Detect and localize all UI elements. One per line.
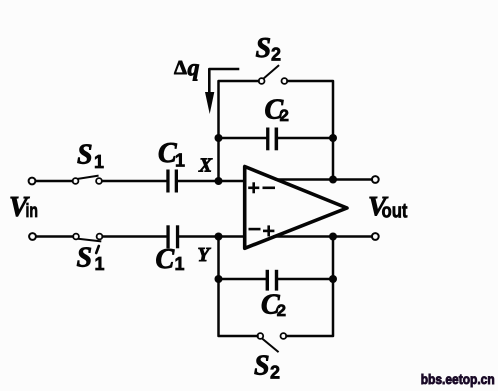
label delta q (charge annotation) [174, 56, 200, 82]
node Vout+ output terminal (open circle) [372, 176, 379, 183]
svg-text:S: S [256, 33, 272, 64]
wire top input: C1 to op-amp non-inverting input via node X [178, 180, 244, 183]
switch S1' (two contact circles + lever) [73, 234, 102, 242]
svg-text:bbs.eetop.cn: bbs.eetop.cn [421, 372, 495, 387]
svg-text:1: 1 [175, 151, 185, 171]
wire bottom C2 row right [278, 278, 333, 281]
svg-text:S: S [77, 242, 93, 273]
svg-text:q: q [188, 56, 200, 82]
wire top C2 row right [278, 137, 333, 140]
node Y junction dot [215, 233, 223, 241]
svg-text:1: 1 [175, 254, 185, 274]
wire right rail upper: S2 row down to top output node [288, 81, 334, 180]
node Vin+ input terminal (top-left open circle) [29, 178, 36, 185]
svg-text:out: out [382, 201, 408, 223]
label S1' (bottom input switch) [77, 242, 105, 274]
switch S2 (top feedback, contact circles + lever) [259, 66, 288, 84]
junction dot: top C2 left on rail [215, 134, 223, 142]
wire bottom input: switch S1' to capacitor C1 [103, 235, 167, 238]
label C1 (bottom input capacitor value) [156, 244, 185, 275]
junction dot: bottom output on right rail [329, 233, 337, 241]
svg-text:Y: Y [198, 245, 212, 266]
label S2 (top feedback switch) [256, 33, 282, 65]
wire left rail upper: node X up to switch S2 row [219, 81, 259, 181]
svg-text:1: 1 [94, 152, 104, 172]
op-amp pin + (top non-inverting input mark) [250, 184, 259, 192]
svg-text:C: C [156, 244, 175, 275]
wire bottom C2 row left [219, 278, 267, 281]
wire delta-q annotation arrow (charge flow into node X) [209, 69, 238, 95]
capacitor C1 (top input, plates) [166, 170, 178, 193]
junction dot: bottom C2 right on rail [329, 275, 337, 283]
wire right rail lower: bottom output node down to bottom S2 row [287, 237, 334, 337]
op-amp U1 (fully differential amplifier triangle) [245, 167, 347, 249]
switch S1 (two contact circles + lever) [73, 176, 102, 184]
wire bottom output: op-amp edge to Vout- terminal [274, 235, 372, 238]
node Vout- output terminal (open circle) [372, 233, 379, 240]
junction dot: bottom C2 left on rail [215, 275, 223, 283]
svg-text:Δ: Δ [174, 57, 187, 79]
junction dot: top C2 right on rail [329, 134, 337, 142]
node Vin- input terminal (bottom-left open circle) [29, 233, 36, 240]
label Vin [9, 192, 38, 223]
wire top output: op-amp edge to Vout+ terminal [276, 178, 372, 181]
wire bottom input: terminal to switch S1' [36, 235, 73, 238]
capacitor C1 (bottom input, plates) [166, 225, 179, 248]
label C2 (bottom feedback capacitor value) [261, 290, 286, 321]
wire top C2 row left [219, 137, 267, 140]
svg-text:in: in [26, 201, 39, 222]
svg-text:1: 1 [95, 254, 105, 274]
wire top input: switch S1 to capacitor C1 [102, 180, 166, 183]
svg-text:2: 2 [277, 301, 286, 320]
svg-text:X: X [198, 155, 213, 176]
op-amp pin + (bottom output mark) [264, 227, 273, 235]
wire bottom input: C1 to op-amp inverting input via node Y [179, 235, 244, 238]
label Vout [368, 190, 408, 223]
label S1 (top input switch) [77, 139, 104, 172]
junction dot: top output on right rail [329, 176, 337, 184]
svg-text:2: 2 [271, 45, 281, 65]
svg-text:2: 2 [270, 363, 280, 383]
svg-text:S: S [254, 351, 270, 382]
op-amp pin - (bottom inverting input mark) [250, 228, 259, 231]
capacitor C2 (top feedback, plates) [266, 128, 278, 151]
label C1 (top input capacitor value) [158, 138, 185, 171]
node X junction dot [215, 177, 223, 185]
svg-text:2: 2 [280, 106, 289, 125]
label S2 (bottom feedback switch) [254, 351, 280, 383]
wire left rail lower: node Y down to bottom switch S2 row [219, 237, 258, 337]
label C2 (top feedback capacitor value) [265, 94, 289, 125]
op-amp pin - (top inverted output mark) [264, 187, 274, 190]
svg-text:S: S [77, 139, 93, 170]
wire top input: terminal to switch S1 [36, 180, 73, 183]
capacitor C2 (bottom feedback, plates) [266, 270, 279, 291]
switch S2 (bottom feedback, contact circles + lever) [257, 333, 286, 351]
